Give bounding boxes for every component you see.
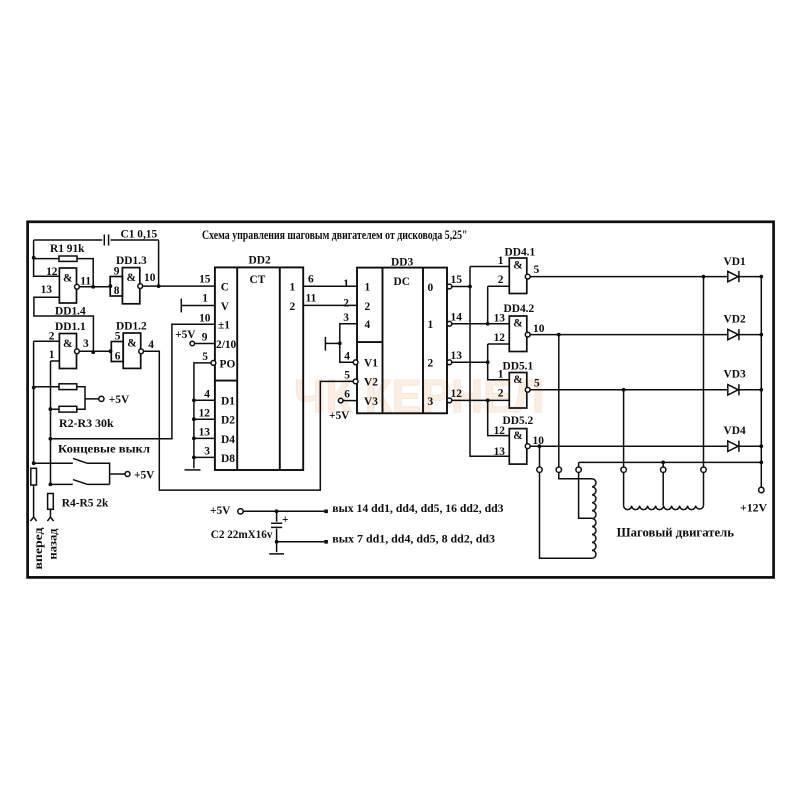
svg-text:&: &: [127, 272, 137, 284]
svg-text:13: 13: [199, 427, 211, 439]
svg-text:C1 0,15: C1 0,15: [121, 229, 158, 241]
svg-text:DD5.2: DD5.2: [503, 415, 534, 427]
svg-text:12: 12: [199, 408, 211, 420]
svg-text:V: V: [221, 301, 230, 313]
svg-text:3: 3: [204, 446, 210, 458]
svg-text:D2: D2: [221, 415, 235, 427]
svg-text:13: 13: [451, 350, 463, 362]
svg-text:+: +: [282, 514, 289, 526]
svg-text:VD3: VD3: [724, 369, 746, 381]
svg-text:5: 5: [202, 351, 208, 363]
svg-text:&: &: [63, 338, 73, 350]
svg-text:5: 5: [534, 264, 540, 276]
svg-text:1: 1: [343, 278, 349, 290]
svg-text:V1: V1: [364, 358, 378, 370]
svg-text:1: 1: [49, 349, 55, 361]
svg-text:2: 2: [498, 274, 504, 286]
svg-text:12: 12: [451, 388, 463, 400]
svg-text:9: 9: [114, 265, 120, 277]
svg-text:2: 2: [365, 301, 371, 313]
svg-text:+5V: +5V: [175, 329, 196, 341]
svg-text:+5V: +5V: [134, 469, 155, 481]
svg-text:DD3: DD3: [391, 257, 413, 269]
svg-text:2: 2: [428, 358, 434, 370]
svg-text:±1: ±1: [218, 320, 230, 332]
svg-text:6: 6: [344, 388, 350, 400]
svg-text:назад: назад: [48, 528, 60, 559]
svg-text:R4-R5 2k: R4-R5 2k: [62, 498, 109, 510]
svg-text:DD5.1: DD5.1: [503, 360, 534, 372]
svg-text:11: 11: [80, 276, 91, 288]
svg-text:4: 4: [148, 339, 154, 351]
svg-text:1: 1: [365, 282, 371, 294]
svg-text:3: 3: [343, 312, 349, 324]
svg-text:2: 2: [498, 387, 504, 399]
svg-text:Шаговый двигатель: Шаговый двигатель: [617, 526, 735, 540]
svg-text:4: 4: [344, 351, 350, 363]
svg-text:1: 1: [498, 369, 504, 381]
svg-text:4: 4: [365, 319, 371, 331]
svg-text:вых 7 dd1, dd4, dd5, 8 dd2,: вых 7 dd1, dd4, dd5, 8 dd2, dd3: [332, 534, 495, 546]
svg-text:C2 22mX16v: C2 22mX16v: [211, 529, 273, 541]
svg-text:12: 12: [46, 266, 58, 278]
svg-text:1: 1: [290, 282, 296, 294]
svg-text:12: 12: [494, 332, 506, 344]
svg-text:&: &: [513, 317, 523, 329]
svg-text:D1: D1: [221, 396, 235, 408]
svg-text:11: 11: [306, 293, 317, 305]
svg-text:VD2: VD2: [724, 314, 746, 326]
svg-text:15: 15: [199, 273, 211, 285]
svg-text:V2: V2: [364, 377, 378, 389]
svg-text:6: 6: [115, 351, 121, 363]
svg-text:Схема управления шаговым двига: Схема управления шаговым двигателем от д…: [202, 228, 468, 242]
svg-text:12: 12: [494, 425, 506, 437]
svg-text:&: &: [513, 374, 523, 386]
svg-text:DD4.1: DD4.1: [505, 247, 536, 259]
svg-text:1: 1: [428, 319, 434, 331]
svg-text:10: 10: [199, 313, 211, 325]
svg-text:D8: D8: [221, 453, 235, 465]
svg-text:D4: D4: [221, 434, 235, 446]
svg-text:1: 1: [498, 255, 504, 267]
svg-text:15: 15: [451, 274, 463, 286]
svg-text:вых 14 dd1, dd4, dd5, 16 dd2,: вых 14 dd1, dd4, dd5, 16 dd2, dd3: [332, 503, 504, 515]
svg-text:6: 6: [308, 273, 314, 285]
svg-text:&: &: [513, 430, 523, 442]
svg-text:8: 8: [114, 285, 120, 297]
svg-text:10: 10: [144, 272, 156, 284]
svg-text:CT: CT: [250, 274, 266, 286]
svg-text:VD1: VD1: [724, 256, 746, 268]
svg-text:DD4.2: DD4.2: [504, 303, 535, 315]
svg-text:C: C: [221, 282, 229, 294]
svg-text:1: 1: [202, 293, 208, 305]
svg-text:VD4: VD4: [724, 425, 746, 437]
svg-text:DC: DC: [394, 276, 410, 288]
svg-text:+5V: +5V: [329, 410, 350, 422]
svg-text:13: 13: [494, 446, 506, 458]
svg-text:3: 3: [83, 338, 89, 350]
svg-text:2: 2: [290, 301, 296, 313]
svg-text:DD1.1: DD1.1: [55, 321, 86, 333]
svg-text:+5V: +5V: [109, 394, 130, 406]
svg-text:&: &: [513, 259, 523, 271]
svg-text:3: 3: [428, 396, 434, 408]
svg-text:Концевые выкл: Концевые выкл: [58, 444, 151, 456]
svg-text:R1 91k: R1 91k: [50, 243, 85, 255]
svg-text:DD1.2: DD1.2: [116, 320, 147, 332]
svg-text:2: 2: [343, 297, 349, 309]
svg-text:5: 5: [534, 378, 540, 390]
svg-text:2/10: 2/10: [216, 339, 237, 351]
svg-text:14: 14: [451, 312, 463, 324]
svg-text:вперед: вперед: [33, 527, 45, 569]
svg-text:10: 10: [533, 323, 545, 335]
svg-text:&: &: [63, 273, 73, 285]
svg-text:V3: V3: [364, 396, 378, 408]
svg-text:DD2: DD2: [249, 254, 271, 266]
svg-text:&: &: [127, 338, 137, 350]
svg-text:+12V: +12V: [740, 503, 768, 515]
svg-text:5: 5: [344, 369, 350, 381]
svg-text:0: 0: [428, 282, 434, 294]
svg-text:13: 13: [494, 313, 506, 325]
svg-text:13: 13: [41, 284, 53, 296]
svg-text:4: 4: [204, 389, 210, 401]
svg-text:R2-R3 30k: R2-R3 30k: [59, 418, 114, 430]
svg-text:+5V: +5V: [210, 505, 231, 517]
svg-text:9: 9: [202, 332, 208, 344]
svg-text:DD1.3: DD1.3: [116, 255, 147, 267]
svg-text:PO: PO: [220, 358, 236, 370]
